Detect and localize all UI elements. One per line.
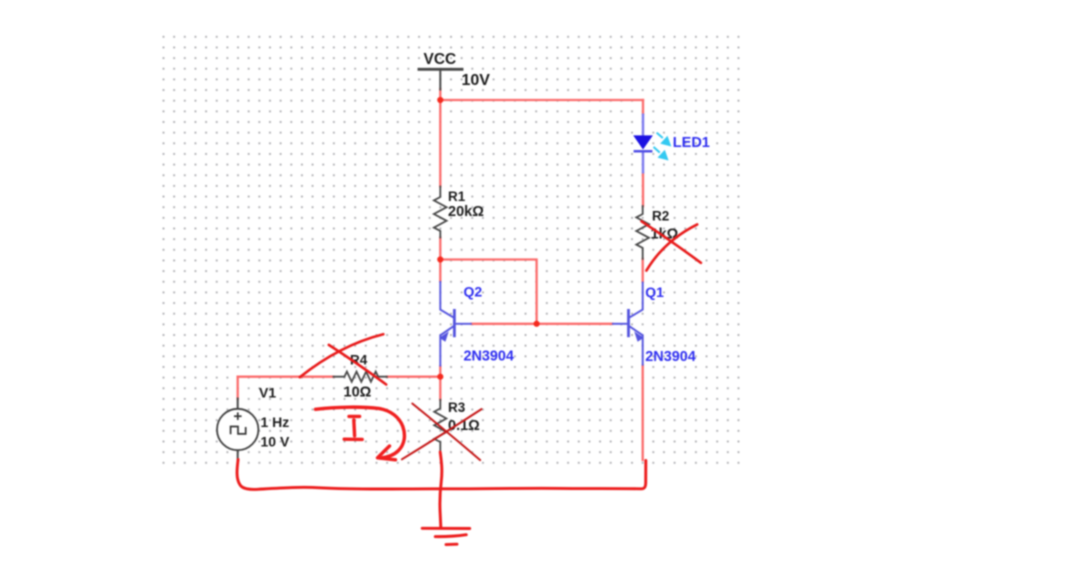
svg-text:R3: R3 <box>448 400 466 415</box>
svg-text:VCC: VCC <box>424 51 457 68</box>
svg-text:Q2: Q2 <box>464 284 483 300</box>
svg-text:1 Hz: 1 Hz <box>261 414 290 430</box>
svg-text:10Ω: 10Ω <box>344 384 372 400</box>
svg-text:R1: R1 <box>448 189 466 204</box>
svg-text:20kΩ: 20kΩ <box>448 204 484 220</box>
svg-text:R2: R2 <box>652 208 669 223</box>
svg-text:10V: 10V <box>462 72 491 89</box>
svg-text:LED1: LED1 <box>673 135 710 151</box>
svg-text:V1: V1 <box>259 384 276 400</box>
svg-text:2N3904: 2N3904 <box>645 349 695 365</box>
svg-text:10 V: 10 V <box>261 434 290 450</box>
svg-text:2N3904: 2N3904 <box>464 349 514 365</box>
svg-text:Q1: Q1 <box>645 284 664 300</box>
